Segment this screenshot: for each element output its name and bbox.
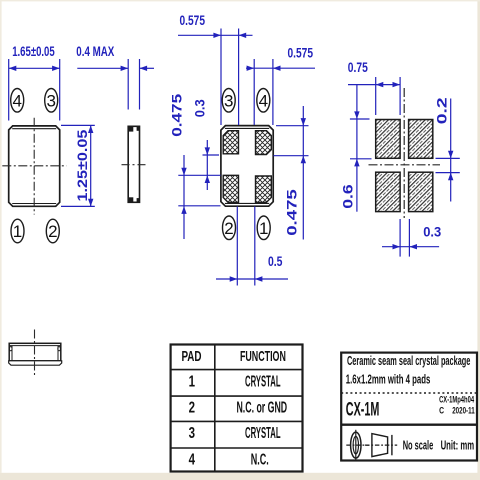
svg-text:0.6: 0.6	[341, 184, 356, 209]
row 1	[189, 371, 281, 390]
front view seam ball right	[58, 347, 61, 351]
svg-text:0.2: 0.2	[434, 97, 450, 124]
svg-text:2: 2	[189, 397, 196, 415]
svg-text:1.6x1.2mm with 4 pads: 1.6x1.2mm with 4 pads	[346, 374, 431, 387]
front view base plate	[9, 361, 62, 365]
crystal pad 1 (hatched, bottom-right)	[256, 176, 272, 202]
top view vertical centerline	[33, 118, 35, 215]
svg-text:0.4 MAX: 0.4 MAX	[76, 43, 114, 59]
svg-text:3: 3	[224, 91, 233, 110]
dimension 0.475 (right)	[274, 106, 309, 240]
svg-text:4: 4	[12, 91, 21, 110]
svg-text:PAD: PAD	[181, 348, 201, 364]
top view package outline	[9, 126, 60, 206]
svg-text:CX-1Mp4h04: CX-1Mp4h04	[439, 394, 475, 405]
pad label circle 3	[45, 89, 58, 113]
front view seam ball left	[9, 347, 12, 351]
svg-text:CRYSTAL: CRYSTAL	[245, 372, 281, 390]
row 4	[189, 449, 269, 468]
bottom view package outline	[221, 126, 273, 207]
pad label circle 1	[11, 219, 24, 243]
dimension 0.6	[341, 85, 372, 212]
dimension 1.65±0.05	[9, 43, 60, 120]
projection symbol circle	[346, 430, 369, 460]
svg-text:N.C. or GND: N.C. or GND	[236, 399, 287, 416]
projection symbol cone	[365, 434, 397, 457]
svg-text:1: 1	[259, 219, 268, 238]
svg-text:N.C.: N.C.	[251, 451, 269, 468]
svg-text:0.3: 0.3	[192, 99, 208, 117]
svg-text:Ceramic seam seal crystal pack: Ceramic seam seal crystal package	[347, 355, 471, 368]
svg-text:2020-11: 2020-11	[452, 405, 475, 416]
svg-text:CX-1M: CX-1M	[346, 400, 380, 421]
pad label circle 4	[257, 89, 270, 113]
dimension 0.5 (bottom gap)	[216, 207, 288, 286]
crystal pad 3 (hatched, top-left)	[223, 131, 238, 154]
dimension 1.25±0.05	[61, 125, 95, 206]
svg-text:3: 3	[46, 91, 55, 110]
land pattern pad top-right	[409, 120, 433, 159]
front view vertical centerline	[34, 330, 36, 378]
svg-text:0.575: 0.575	[180, 12, 206, 28]
row 2	[189, 397, 288, 416]
dimension 0.3 (left pad gap)	[192, 99, 219, 190]
svg-text:1: 1	[13, 222, 22, 241]
dimension 0.4 MAX	[76, 43, 154, 109]
dimension 0.2	[434, 97, 460, 201]
dimension 0.75	[348, 59, 400, 115]
dimension 0.575 (left top)	[178, 12, 253, 125]
svg-text:0.475: 0.475	[170, 94, 185, 137]
svg-text:4: 4	[189, 449, 196, 467]
row 3	[189, 423, 281, 442]
svg-text:0.575: 0.575	[288, 45, 314, 61]
svg-text:0.5: 0.5	[268, 254, 283, 270]
svg-text:CRYSTAL: CRYSTAL	[245, 424, 281, 442]
land pattern pad bottom-right	[409, 172, 433, 211]
side view (0.4 thickness)	[128, 126, 139, 202]
side view centerline	[122, 164, 147, 166]
svg-text:0.3: 0.3	[423, 224, 441, 240]
svg-text:0.475: 0.475	[285, 189, 300, 236]
dimension 0.475 (left)	[170, 94, 221, 239]
crystal pad 2 (hatched, bottom-left)	[223, 175, 238, 202]
title block frame	[341, 353, 477, 461]
svg-text:Unit: mm: Unit: mm	[441, 440, 474, 453]
top view horizontal centerline	[2, 165, 66, 167]
pad label circle 2	[223, 216, 236, 240]
pad label circle 3	[222, 89, 235, 113]
svg-text:2: 2	[224, 219, 233, 238]
svg-text:4: 4	[259, 91, 268, 110]
svg-text:1.25±0.05: 1.25±0.05	[75, 130, 91, 202]
land pattern vertical centerline	[403, 88, 405, 218]
pad label circle 1	[257, 216, 270, 240]
svg-text:FUNCTION: FUNCTION	[240, 348, 286, 365]
svg-text:No scale: No scale	[403, 440, 434, 453]
crystal pad 4 (hatched, top-right)	[256, 131, 272, 155]
svg-text:1: 1	[189, 371, 196, 389]
svg-text:0.75: 0.75	[348, 59, 368, 75]
land pattern horizontal centerline	[369, 164, 441, 166]
pad function table	[171, 345, 303, 472]
pad label circle 4	[11, 89, 24, 113]
front view body	[9, 343, 61, 361]
dimension 0.575 (right top)	[246, 45, 315, 125]
pad label circle 2	[46, 219, 59, 243]
dimension 0.3 (land gap)	[382, 219, 441, 257]
svg-text:1.65±0.05: 1.65±0.05	[12, 43, 55, 59]
land pattern pad top-left	[376, 120, 400, 159]
land pattern pad bottom-left	[376, 172, 400, 211]
svg-text:2: 2	[48, 222, 57, 241]
svg-text:C: C	[439, 406, 444, 416]
svg-text:3: 3	[189, 423, 196, 441]
